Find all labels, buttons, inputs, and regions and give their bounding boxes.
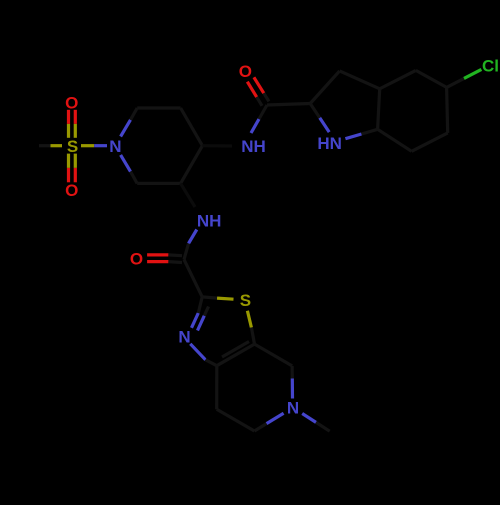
wire: S-C2 thiazole bond [202,297,233,299]
svg-text:N: N [109,137,121,156]
node: sulfonyl O bottom [65,181,78,200]
wire: HN-C7a indoline bond [345,129,377,138]
node: amide NH (left) [197,211,222,230]
svg-text:O: O [239,62,252,81]
wire: benzo C5-C6 [447,87,448,132]
svg-text:O: O [130,250,143,269]
wire: S-C7a thiazole bond [247,311,254,344]
node: sulfonyl O top [65,93,78,112]
wire: C=O2 carbonyl double bond [147,255,182,263]
wire: HN-C2 indoline bond [310,104,329,133]
wire: piperidine C2-C3 [137,106,180,109]
wire: indoline C3a-C7a [378,89,380,130]
wire: indoline C3-C3a [340,71,380,89]
svg-text:S: S [67,137,78,156]
wire: benzo C6-C7 [412,133,448,151]
svg-text:NH: NH [241,137,266,156]
svg-text:N: N [287,399,299,418]
wire: C4-N5 ring bond [291,366,295,399]
wire: piperidine C4-C5 [181,146,203,184]
node: piperidine N [109,137,121,156]
wire: NH-C(O) amide bond [184,230,197,260]
wire: indoline C2-C3 [310,71,339,104]
wire: C1-C2 indoline bond [267,104,310,106]
wire: S=O bottom double bond (olive/red halves) [69,154,76,183]
svg-text:Cl: Cl [482,56,499,75]
wire: S-N sulfonamide bond [81,144,107,147]
wire: piperidine C3-C4 [181,108,203,146]
wire: C4-NH amide bond (dark half) [202,144,232,148]
node: Cl chlorine [482,56,499,75]
node: carbonyl O1 [239,62,252,81]
wire: C1=O1 carbonyl double bond [247,77,269,106]
wire: N-C3a thiazole bond [190,344,217,366]
wire: C6-C7 ring bond [217,409,255,431]
svg-text:S: S [240,291,251,310]
svg-text:NH: NH [197,211,222,230]
wire: benzo C7-C7a [378,129,412,151]
wire: C5-NH amide bond (dark half) [181,183,195,207]
wire: C(O)-C2 thiazole bond [184,260,202,297]
wire: S-CH3 bond [39,144,62,147]
wire: benzo C4-C5 [416,70,447,87]
node: thiazole N [178,328,190,347]
svg-text:N: N [178,328,190,347]
wire: C7a-C4 ring bond [255,344,293,366]
wire: benzo C3a-C4 [380,70,416,88]
wire: S=O top double bond (red/olive halves) [69,110,76,138]
node: sulfonyl S [67,137,78,156]
svg-text:O: O [65,93,78,112]
svg-text:O: O [65,181,78,200]
node: carbonyl O2 [130,250,143,269]
node: indoline HN [317,134,342,153]
wire: piperidine C5-C6 [137,182,180,185]
wire: C5-Cl bond [447,69,482,87]
wire: N-C2 piperidine bond [121,108,138,137]
wire: N=C2 thiazole double bond [192,297,209,331]
wire: N-C1 amide bond [251,105,267,133]
svg-text:HN: HN [317,134,342,153]
node: amine N5 [287,399,299,418]
wire: N5-C6 ring bond [254,413,283,431]
wire: C7-C3a ring bond [215,366,218,410]
node: amide NH (top) [241,137,266,156]
wire: N-C6 piperidine bond [121,155,138,184]
wire: N5-CH3 bond [302,414,330,432]
wire: thiazole C3a=C7a bond [217,342,255,366]
node: thiazole S [240,291,251,310]
